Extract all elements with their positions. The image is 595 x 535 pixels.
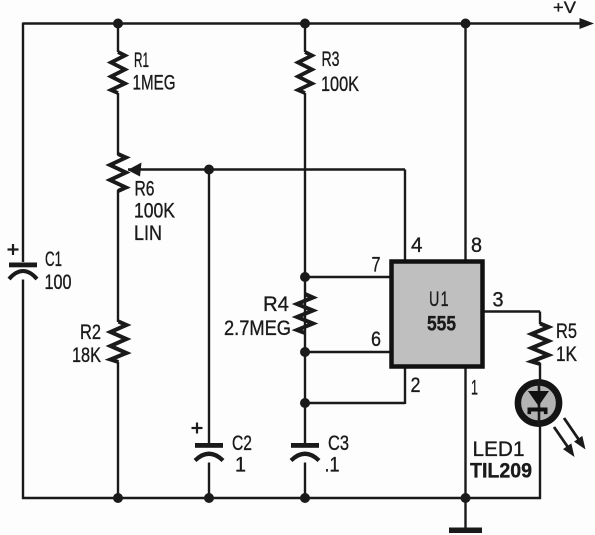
svg-text:1: 1 xyxy=(235,454,246,477)
svg-text:1: 1 xyxy=(471,377,478,400)
svg-text:4: 4 xyxy=(411,234,423,257)
node pin 7 junction xyxy=(300,272,310,282)
svg-text:C3: C3 xyxy=(328,432,349,455)
wire top rail to R3 xyxy=(304,24,306,53)
svg-text:R3: R3 xyxy=(322,48,340,71)
wire bottom ground rail xyxy=(22,497,541,499)
capacitor C1 (polarized electrolytic) xyxy=(9,263,37,268)
wire R2 to bottom rail xyxy=(117,362,119,498)
wire R6 wiper horizontal run xyxy=(128,168,405,170)
wire pin 2 vertical xyxy=(404,367,406,404)
svg-text:C2: C2 xyxy=(232,432,252,455)
potentiometer R6 xyxy=(110,154,126,191)
wire through LED1 xyxy=(538,380,541,427)
svg-text:R1: R1 xyxy=(134,49,149,72)
svg-text:2.7MEG: 2.7MEG xyxy=(224,317,291,340)
resistor R5 xyxy=(532,324,549,365)
svg-text:18K: 18K xyxy=(72,344,101,367)
node bottom rail / ground xyxy=(461,493,471,503)
C2 polarity plus sign xyxy=(192,423,203,434)
wire top +V rail xyxy=(23,22,586,24)
wire left rail lower (C1 to bottom rail) xyxy=(22,280,24,500)
wire wiper down to pin 4 xyxy=(404,170,406,262)
svg-text:R6: R6 xyxy=(135,178,155,201)
wire R6 to R2 xyxy=(117,190,119,322)
LED light emission arrow 1 xyxy=(564,418,579,440)
svg-text:3: 3 xyxy=(493,289,504,312)
svg-text:U1: U1 xyxy=(429,288,450,311)
svg-text:100K: 100K xyxy=(134,200,175,223)
wire C2 to bottom rail xyxy=(208,463,210,499)
wire R5 to LED1 xyxy=(539,363,541,382)
svg-text:555: 555 xyxy=(427,313,456,336)
wire pin 3 down to R5 xyxy=(539,312,541,325)
svg-text:1K: 1K xyxy=(556,343,577,366)
svg-text:C1: C1 xyxy=(45,248,62,271)
wire pin 3 horizontal xyxy=(483,310,540,312)
node pin 6 junction xyxy=(300,347,310,357)
svg-text:LIN: LIN xyxy=(134,222,162,245)
resistor R1 xyxy=(111,52,125,93)
wire wiper junction down to C2 xyxy=(208,170,210,444)
wire R1 to R6 xyxy=(117,93,119,155)
svg-text:LED1: LED1 xyxy=(473,438,525,461)
resistor R2 xyxy=(111,322,127,363)
IC U1 555 timer body xyxy=(392,262,483,367)
capacitor C3 xyxy=(291,443,319,448)
svg-text:R4: R4 xyxy=(263,293,289,316)
wire LED1 to bottom rail xyxy=(539,424,541,499)
node bottom rail / C2 xyxy=(204,493,214,503)
node pin 2 junction xyxy=(300,398,310,408)
wire ground stub xyxy=(464,498,466,528)
node bottom rail / C3 xyxy=(300,493,310,503)
resistor R3 xyxy=(298,52,312,93)
LED1 anode triangle xyxy=(528,391,549,406)
R6 wiper arrowhead xyxy=(128,163,142,177)
LED1 circle body xyxy=(518,382,559,423)
LED1 cathode bar xyxy=(528,408,548,415)
wire top rail to pin 8 xyxy=(464,24,466,262)
svg-text:2: 2 xyxy=(411,374,421,397)
ground symbol bar xyxy=(449,528,482,534)
node bottom rail / R2 xyxy=(113,493,123,503)
wire pin 6 stub xyxy=(305,351,391,353)
svg-text:6: 6 xyxy=(371,328,381,351)
svg-text:TIL209: TIL209 xyxy=(470,460,532,483)
svg-text:7: 7 xyxy=(372,254,381,277)
svg-text:100: 100 xyxy=(45,271,72,294)
wire top rail to R1 xyxy=(117,24,119,53)
LED light emission arrow 2 xyxy=(554,427,568,447)
resistor R4 xyxy=(297,294,313,333)
+V supply arrowhead xyxy=(580,18,595,29)
wire pin 2 horizontal xyxy=(305,402,405,404)
svg-text:R2: R2 xyxy=(80,321,101,344)
svg-text:R5: R5 xyxy=(556,320,577,343)
wire pin 7 stub xyxy=(305,276,391,278)
wire R3 down through R4 junctions to C3 xyxy=(304,93,306,443)
svg-text:100K: 100K xyxy=(321,73,359,96)
C1 polarity plus sign xyxy=(8,244,19,255)
node top rail / R1 branch xyxy=(113,19,123,29)
node top rail / R3 branch xyxy=(300,19,310,29)
svg-text:.1: .1 xyxy=(325,454,340,477)
node top rail / pin 8 branch xyxy=(461,19,471,29)
wire left rail upper (top rail to C1) xyxy=(22,23,24,263)
svg-text:8: 8 xyxy=(471,234,482,257)
node wiper wire / C2 branch xyxy=(204,165,214,175)
capacitor C2 (polarized electrolytic) xyxy=(195,443,223,448)
svg-text:1MEG: 1MEG xyxy=(133,72,176,95)
svg-text:+V: +V xyxy=(553,0,577,17)
wire pin 1 to bottom rail xyxy=(464,367,466,498)
wire C3 to bottom rail xyxy=(304,463,306,499)
